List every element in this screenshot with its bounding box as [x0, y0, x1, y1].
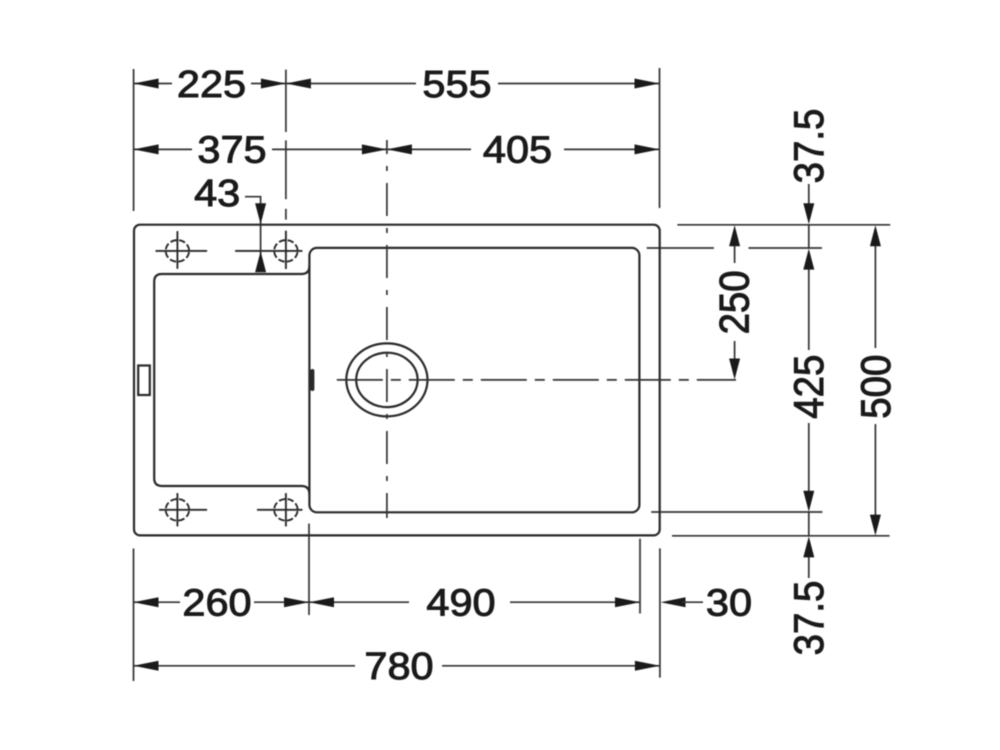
dimension 780 bottom row2	[134, 665, 660, 667]
dimension 555 row1	[286, 83, 660, 85]
dimension 30 bottom row1	[661, 597, 686, 607]
dimension 37.5 top right column	[808, 184, 810, 205]
overflow rectangle on left rim	[138, 366, 150, 396]
svg-text:405: 405	[483, 129, 552, 171]
svg-text:490: 490	[426, 582, 495, 624]
svg-text:500: 500	[854, 355, 900, 419]
svg-text:375: 375	[197, 129, 266, 171]
extension line x=660 bottom (sink right)	[659, 548, 661, 677]
extension line x=309 bottom (bowl left)	[308, 524, 310, 615]
drain inner circle	[356, 353, 417, 407]
mounting hole top-right	[235, 231, 302, 269]
svg-text:30: 30	[706, 582, 752, 624]
extension line right top x=659.5	[659, 68, 661, 208]
svg-text:425: 425	[787, 355, 833, 419]
dimension 250 right column	[734, 246, 736, 359]
centreline horizontal (drain axis)	[337, 379, 736, 381]
extension line left top	[133, 69, 135, 211]
mounting hole bottom-left	[159, 493, 207, 526]
bowl outline	[309, 248, 639, 512]
svg-text:250: 250	[712, 270, 758, 334]
centreline vertical (bowl axis)	[386, 140, 388, 518]
drainboard outline	[154, 266, 309, 494]
tick on bowl left edge at centreline	[310, 371, 314, 389]
extension line y=535.8 right (sink bottom)	[672, 535, 890, 537]
extension line y=224.8 right (sink top)	[677, 224, 890, 226]
svg-text:780: 780	[364, 646, 433, 688]
extension line y=512 right (bowl bottom)	[651, 511, 822, 513]
dimension 425 right column	[808, 268, 810, 492]
dimension 490 bottom row1	[309, 601, 640, 603]
svg-text:37.5: 37.5	[786, 581, 832, 656]
dimension 260 bottom row1	[134, 601, 310, 603]
svg-text:225: 225	[177, 63, 246, 105]
dimension 375 row2	[134, 148, 387, 150]
drain outer circle	[346, 343, 427, 416]
svg-text:37.5: 37.5	[786, 109, 832, 184]
mounting hole top-left	[156, 231, 208, 269]
extension line x=640 bottom (490/30 boundary)	[639, 539, 641, 614]
svg-text:43: 43	[194, 172, 240, 214]
dimension 405 row2	[387, 148, 660, 150]
mounting hole bottom-right	[257, 493, 303, 526]
sink outer outline	[134, 225, 660, 536]
extension line y=248 right (bowl top) seg2	[749, 247, 823, 249]
dimension 225 row1	[134, 83, 286, 85]
svg-text:260: 260	[182, 582, 251, 624]
dimension 500 right column	[874, 246, 876, 515]
extension line left bottom	[133, 549, 135, 682]
arrow up at hole centre line	[255, 251, 266, 272]
dimension 37.5 bottom right column	[808, 512, 810, 537]
arrow down at sink top edge	[255, 203, 266, 224]
svg-text:555: 555	[422, 63, 491, 105]
extension line x=286 (225/555 boundary, centerline style)	[285, 70, 287, 132]
extension line y=248 right (bowl top) seg1	[647, 247, 714, 249]
